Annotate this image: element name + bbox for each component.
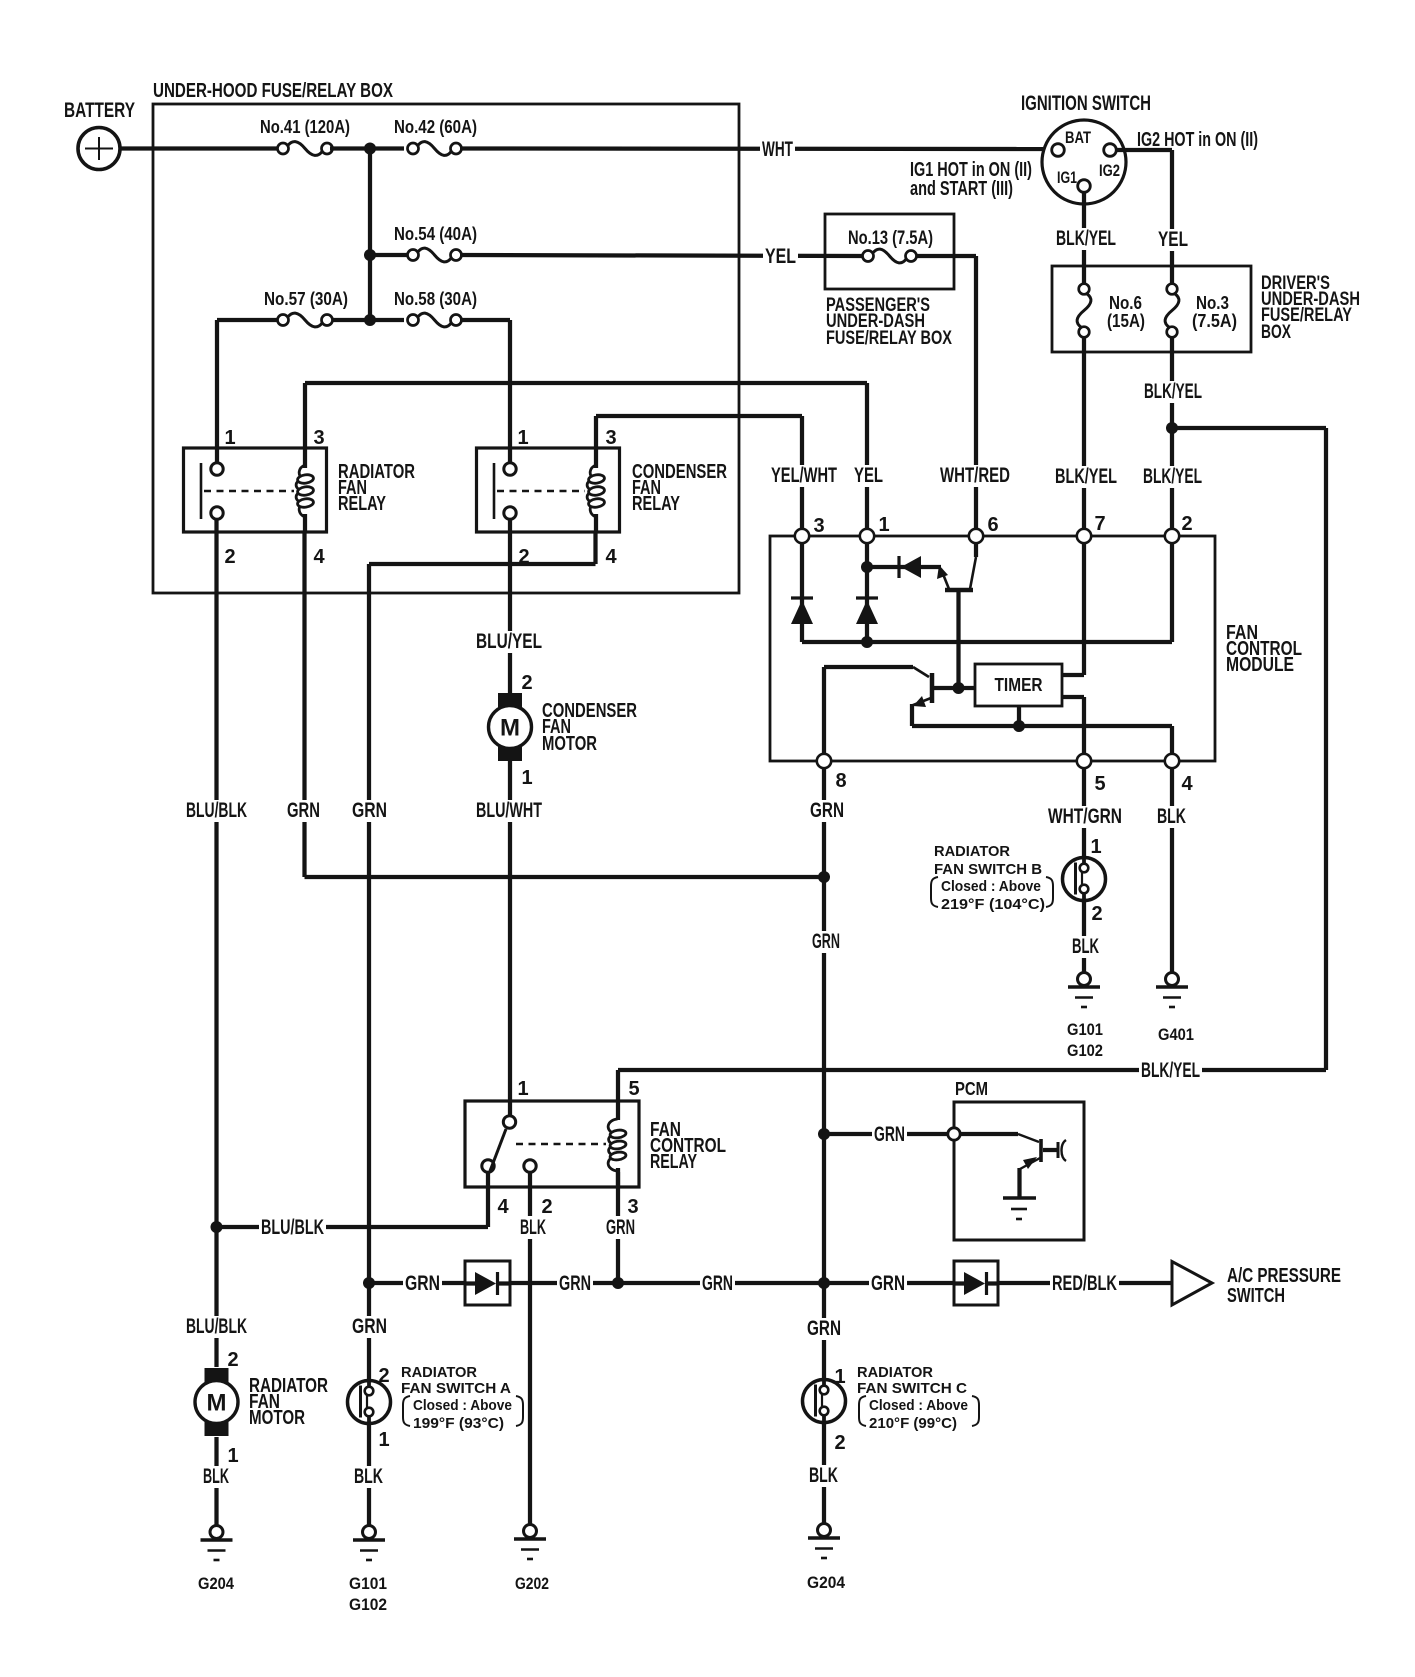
label GRN rail 1: [403, 1273, 442, 1295]
svg-text:G202: G202: [515, 1574, 549, 1593]
wire WHT battery feed to fuse No.41: [120, 146, 277, 150]
wire GRN rail segment 2: [510, 1281, 954, 1285]
svg-text:RELAY: RELAY: [338, 493, 386, 515]
PCM collector connector arc: [1062, 1140, 1067, 1161]
transistor Q1 collector: [974, 543, 978, 557]
fan control module box: [770, 536, 1215, 761]
wire GRN module pin 8 down: [822, 768, 826, 1380]
svg-text:GRN: GRN: [352, 1315, 387, 1338]
svg-text:FUSE/RELAY BOX: FUSE/RELAY BOX: [826, 328, 952, 349]
fuse No.41 (120A): [278, 142, 333, 156]
svg-text:FAN SWITCH A: FAN SWITCH A: [401, 1380, 511, 1397]
label BLK/YEL above pin 7: [1053, 466, 1119, 488]
fan control relay coil: [608, 1119, 626, 1171]
svg-text:No.42 (60A): No.42 (60A): [394, 117, 477, 137]
svg-text:1: 1: [1090, 836, 1101, 858]
diode D1 (pin 3 clamp): [791, 598, 813, 624]
PCM collector connector bar: [1057, 1142, 1060, 1158]
radiator fan relay pin 2 terminal: [211, 507, 223, 519]
svg-text:No.58 (30A): No.58 (30A): [394, 289, 477, 309]
wire Q1 to lower stage: [956, 590, 960, 688]
svg-text:5: 5: [1094, 773, 1105, 795]
svg-text:RADIATOR: RADIATOR: [857, 1364, 933, 1381]
transistor Q2 emitter: [912, 698, 931, 706]
wire BLK/YEL branch to right edge: [1172, 426, 1326, 430]
wire No.57 to junction: [330, 318, 404, 322]
label YEL above module pin 1: [852, 465, 885, 487]
label BLK below switch B: [1070, 936, 1101, 958]
svg-text:3: 3: [627, 1196, 638, 1218]
svg-text:(7.5A): (7.5A): [1192, 311, 1237, 331]
svg-text:GRN: GRN: [559, 1272, 591, 1295]
svg-text:YEL: YEL: [854, 464, 883, 487]
condenser fan relay coil: [587, 465, 605, 517]
svg-text:BLK/YEL: BLK/YEL: [1141, 1059, 1200, 1082]
svg-text:1: 1: [378, 1429, 389, 1451]
svg-text:UNDER-HOOD FUSE/RELAY BOX: UNDER-HOOD FUSE/RELAY BOX: [153, 80, 393, 102]
svg-text:G101: G101: [1067, 1020, 1103, 1039]
label WHT/RED: [938, 465, 1012, 487]
svg-text:4: 4: [497, 1196, 509, 1218]
ground G401: [1156, 973, 1188, 1008]
svg-text:4: 4: [313, 546, 325, 568]
battery positive terminal: [78, 128, 120, 170]
svg-text:PCM: PCM: [955, 1079, 988, 1099]
module terminal 1: [860, 529, 874, 543]
label GRN above switch A: [350, 1316, 389, 1338]
junction D2 bus node: [861, 636, 873, 648]
module terminal 3: [795, 529, 809, 543]
wire BLU/YEL condenser relay pin 2 to motor: [508, 519, 512, 694]
svg-text:1: 1: [517, 427, 528, 449]
svg-text:BOX: BOX: [1261, 322, 1291, 343]
svg-text:BLU/BLK: BLU/BLK: [186, 799, 247, 822]
PCM emitter drop: [1017, 1168, 1021, 1197]
fan control relay pin 2 terminal: [524, 1160, 536, 1172]
radiator fan switch B: [1063, 858, 1106, 901]
wire WHT/GRN module pin 5 to switch B: [1082, 768, 1086, 857]
fuse No.13 (7.5A): [863, 249, 917, 263]
svg-text:BLU/BLK: BLU/BLK: [186, 1315, 247, 1338]
svg-text:No.41 (120A): No.41 (120A): [260, 117, 350, 137]
svg-text:No.57 (30A): No.57 (30A): [264, 289, 348, 309]
ground G202: [514, 1525, 546, 1560]
diode box 2 outline: [954, 1261, 998, 1305]
label BLK/YEL at IG1 drop: [1054, 228, 1118, 250]
svg-text:GRN: GRN: [810, 799, 844, 822]
junction Q2 base node: [953, 682, 965, 694]
svg-text:BLU/BLK: BLU/BLK: [261, 1216, 324, 1239]
PCM transistor collector: [1043, 1148, 1058, 1152]
wire WHT/RED passenger box to module pin 6: [917, 254, 976, 258]
wire BLK switch C to ground: [822, 1422, 826, 1523]
svg-text:BLK: BLK: [809, 1464, 838, 1487]
label YEL at IG2 drop: [1156, 229, 1190, 251]
svg-text:IG1: IG1: [1057, 169, 1077, 187]
svg-text:No.6: No.6: [1109, 293, 1142, 313]
module terminal 2: [1165, 529, 1179, 543]
svg-text:YEL: YEL: [765, 245, 796, 268]
svg-text:BLK/YEL: BLK/YEL: [1144, 380, 1202, 403]
svg-text:4: 4: [605, 546, 617, 568]
svg-text:M: M: [500, 715, 520, 742]
PCM transistor base bar: [1039, 1139, 1043, 1162]
bracket right (switch A): [516, 1396, 523, 1426]
svg-text:GRN: GRN: [812, 930, 840, 953]
svg-text:No.13 (7.5A): No.13 (7.5A): [848, 227, 933, 249]
wire BLK/YEL fuse No.3 to module pin 2: [1170, 338, 1174, 529]
radiator fan relay box: [184, 448, 327, 532]
fuse No.54 (40A): [408, 248, 462, 262]
svg-text:GRN: GRN: [874, 1123, 905, 1146]
radiator fan relay coil top stub: [303, 448, 307, 468]
wire GRN radiator relay pin 4 down: [302, 532, 306, 877]
wire BLU/BLK radiator relay pin 2 down: [214, 519, 218, 1367]
wire Q2 base link: [934, 686, 975, 690]
svg-text:GRN: GRN: [807, 1317, 841, 1340]
radiator fan relay contact blade: [200, 463, 203, 519]
svg-text:Closed : Above: Closed : Above: [413, 1397, 512, 1414]
label GRN above switch C: [805, 1318, 843, 1340]
svg-text:TIMER: TIMER: [995, 675, 1043, 695]
wire fuse No.57 to radiator fan relay pin 1: [217, 318, 277, 322]
wire GRN rail segment 1: [369, 1281, 465, 1285]
condenser fan relay coil top stub: [594, 448, 598, 468]
wire GRN fan control relay pin 3 down: [616, 1172, 620, 1283]
label BLK (switch A): [352, 1466, 385, 1488]
wire BLK/YEL fuse No.6 to module pin 7: [1082, 338, 1086, 530]
fan control relay coil bottom stub: [616, 1168, 620, 1187]
bracket left (switch B): [931, 877, 938, 907]
diode D5 (A/C circuit): [954, 1272, 998, 1295]
label BLU/BLK lower: [184, 1316, 249, 1338]
junction GRN rail relay node: [612, 1277, 624, 1289]
wire module pin 8 internal: [822, 667, 826, 754]
svg-text:Closed : Above: Closed : Above: [941, 878, 1041, 895]
svg-text:1: 1: [224, 427, 235, 449]
wire fuse No.58 to condenser fan relay pin 1: [460, 318, 510, 322]
radiator fan switch A: [348, 1381, 391, 1424]
svg-text:G101: G101: [349, 1574, 387, 1593]
svg-text:3: 3: [813, 515, 824, 537]
ground G101/G102 (switch B): [1068, 973, 1100, 1008]
ignition terminal IG1: [1078, 180, 1091, 193]
transistor Q2 base bar: [930, 673, 935, 703]
ignition terminal IG2: [1104, 144, 1117, 157]
label BLK below pin 4: [1155, 806, 1188, 828]
label WHT/GRN: [1046, 806, 1124, 828]
wire module pin 3 internal: [800, 543, 804, 642]
junction pin 1 internal node: [861, 561, 873, 573]
label BLK/YEL above junction: [1142, 381, 1204, 403]
svg-text:2: 2: [227, 1349, 238, 1371]
wire BLK switch A to ground: [367, 1423, 371, 1525]
svg-text:219°F (104°C): 219°F (104°C): [941, 896, 1045, 913]
wire Q2 emitter bus: [910, 704, 914, 726]
condenser fan motor: [489, 693, 532, 761]
diode D4 (fan circuit): [465, 1272, 510, 1295]
label BLK (rad motor): [201, 1466, 231, 1488]
svg-text:and START (III): and START (III): [910, 178, 1013, 200]
wire radiator relay pin 3 to module pin 1: [303, 383, 307, 448]
svg-text:A/C PRESSURE: A/C PRESSURE: [1227, 1265, 1341, 1287]
svg-text:MODULE: MODULE: [1226, 654, 1294, 676]
label BLK/YEL lower: [1139, 1060, 1202, 1082]
svg-text:IGNITION SWITCH: IGNITION SWITCH: [1021, 92, 1151, 115]
svg-text:GRN: GRN: [352, 799, 387, 822]
ignition switch body: [1042, 120, 1126, 204]
svg-text:SWITCH: SWITCH: [1227, 1285, 1285, 1307]
bracket left (switch A): [403, 1396, 410, 1426]
svg-text:IG2: IG2: [1099, 162, 1120, 180]
svg-text:MOTOR: MOTOR: [542, 733, 597, 755]
label GRN rail 3: [700, 1273, 735, 1295]
svg-text:BLK: BLK: [520, 1216, 546, 1239]
transistor Q1 base bar: [945, 588, 973, 593]
junction GRN rail switch C node: [818, 1277, 830, 1289]
timer right stub to pin 7: [1062, 673, 1084, 677]
svg-text:GRN: GRN: [702, 1272, 733, 1295]
fan control relay coil top stub: [616, 1070, 620, 1120]
wire WHT fuse No.42 to ignition switch BAT: [460, 146, 1051, 151]
fan control relay box: [465, 1101, 639, 1187]
svg-text:7: 7: [1094, 513, 1105, 535]
wire GRN to PCM: [824, 1132, 948, 1136]
svg-text:RED/BLK: RED/BLK: [1052, 1272, 1117, 1295]
junction GRN rail left node: [363, 1277, 375, 1289]
ground G204 (rad motor): [201, 1526, 233, 1561]
fuse No.3 (7.5A): [1165, 284, 1179, 338]
label GRN at PCM: [872, 1124, 907, 1146]
svg-text:1: 1: [521, 767, 532, 789]
fan control relay dashed link: [516, 1143, 606, 1145]
svg-text:G102: G102: [1067, 1041, 1103, 1060]
junction battery feed node: [364, 143, 376, 155]
condenser fan relay actuation dashed link: [497, 490, 585, 492]
svg-text:YEL/WHT: YEL/WHT: [771, 464, 837, 487]
svg-text:FAN SWITCH C: FAN SWITCH C: [857, 1380, 967, 1397]
PCM internal ground: [1003, 1198, 1036, 1219]
svg-text:GRN: GRN: [871, 1272, 905, 1295]
label GRN rail 2: [557, 1273, 593, 1295]
label GRN below pin 3: [604, 1216, 637, 1239]
wire BLK radiator motor to ground: [214, 1437, 218, 1525]
svg-text:BLK: BLK: [203, 1465, 229, 1488]
wire YEL fuse No.54 to passenger box: [460, 255, 862, 256]
fan control relay pin 4 terminal: [482, 1160, 494, 1172]
svg-text:8: 8: [835, 770, 846, 792]
bracket right (switch C): [972, 1396, 979, 1426]
radiator fan relay coil bottom stub: [303, 514, 307, 532]
wire IG1 to BLK/YEL drop: [1082, 193, 1086, 284]
wire RED/BLK to A/C pressure switch: [998, 1281, 1172, 1285]
condenser fan relay contact blade: [493, 463, 496, 519]
module terminal 8: [817, 754, 831, 768]
label YEL: [763, 246, 798, 268]
bracket right (switch B): [1046, 877, 1053, 907]
svg-text:3: 3: [605, 427, 616, 449]
wire GRN condenser relay pin 4 down: [367, 564, 371, 1380]
label BLK (switch C): [807, 1465, 840, 1487]
svg-text:WHT: WHT: [762, 138, 793, 161]
wire module pin 5 internal: [1082, 697, 1086, 754]
condenser fan relay box: [477, 448, 620, 532]
label BLU/YEL: [474, 631, 544, 653]
wire fuse No.41 to No.42: [330, 146, 404, 150]
diode D3 (series): [899, 556, 921, 578]
label GRN radiator relay pin 4: [285, 800, 322, 822]
PCM internal wire: [960, 1132, 1018, 1136]
ground G204 (switch C): [808, 1524, 840, 1559]
timer bottom stub: [1017, 706, 1021, 726]
wire IG2 to YEL drop: [1117, 148, 1173, 152]
radiator fan switch C: [803, 1380, 846, 1423]
svg-text:BATTERY: BATTERY: [64, 99, 135, 122]
label GRN below junction: [810, 931, 842, 953]
svg-text:Closed : Above: Closed : Above: [869, 1397, 968, 1414]
svg-text:FAN SWITCH B: FAN SWITCH B: [934, 861, 1042, 878]
timer right stub to pin 5: [1062, 695, 1084, 699]
module terminal 4: [1165, 754, 1179, 768]
diode D2 (pin 1 clamp): [856, 598, 878, 624]
svg-text:4: 4: [1181, 773, 1193, 795]
svg-text:2: 2: [1181, 513, 1192, 535]
junction timer bottom node: [1013, 720, 1025, 732]
svg-text:RADIATOR: RADIATOR: [401, 1364, 477, 1381]
fuse No.6 (15A): [1077, 284, 1091, 338]
fuse No.57 (30A): [278, 313, 333, 327]
wire feeder junction to No.54 row: [368, 149, 372, 256]
label BLU/BLK upper: [184, 800, 249, 822]
radiator fan relay coil: [296, 465, 314, 517]
svg-text:GRN: GRN: [606, 1216, 635, 1239]
svg-text:2: 2: [521, 672, 532, 694]
svg-text:RELAY: RELAY: [632, 493, 680, 515]
wire BLK/YEL right branch to fan control relay pin 5: [618, 1068, 1326, 1072]
svg-text:G401: G401: [1158, 1025, 1194, 1044]
wire BLK module pin 4 to ground: [1170, 768, 1174, 972]
junction BLK/YEL branch node: [1166, 422, 1178, 434]
fan control relay switch arm: [490, 1129, 506, 1171]
module internal bus: [802, 640, 1172, 644]
svg-text:No.54 (40A): No.54 (40A): [394, 224, 477, 244]
svg-text:GRN: GRN: [287, 799, 320, 822]
ignition terminal BAT: [1052, 144, 1065, 157]
svg-text:BLK/YEL: BLK/YEL: [1055, 465, 1117, 488]
label GRN below pin 8: [808, 800, 846, 822]
passenger's under-dash fuse/relay box outline: [825, 214, 954, 289]
condenser fan relay pin 1 terminal: [504, 463, 516, 475]
fuse No.42 (60A): [408, 142, 462, 156]
condenser fan relay coil bottom stub: [594, 514, 598, 532]
label BLK below pin 2: [518, 1216, 548, 1239]
wire module pin 2 internal: [1170, 543, 1174, 642]
condenser fan relay pin 2 terminal: [504, 507, 516, 519]
module terminal 6: [969, 529, 983, 543]
svg-text:WHT/GRN: WHT/GRN: [1048, 805, 1122, 828]
svg-text:YEL: YEL: [1158, 228, 1188, 251]
svg-text:MOTOR: MOTOR: [249, 1407, 305, 1429]
wire node to diode D3: [867, 565, 941, 569]
svg-text:BLK: BLK: [1157, 805, 1186, 828]
A/C pressure switch connector: [1172, 1262, 1212, 1306]
svg-text:M: M: [207, 1390, 227, 1417]
diode box 1 outline: [465, 1261, 510, 1305]
svg-text:1: 1: [517, 1078, 528, 1100]
junction No.54 tap: [364, 249, 376, 261]
label BLK/YEL above pin 2: [1141, 466, 1204, 488]
svg-text:2: 2: [1091, 903, 1102, 925]
wire feeder to No.57/58 row: [368, 255, 372, 320]
bracket left (switch C): [859, 1396, 866, 1426]
svg-text:BLK: BLK: [354, 1465, 383, 1488]
svg-text:No.3: No.3: [1196, 293, 1229, 313]
radiator fan relay pin 1 terminal: [211, 463, 223, 475]
svg-text:5: 5: [628, 1078, 639, 1100]
wire BLU/WHT motor to fan control relay pin 1: [508, 760, 512, 1116]
fuse No.58 (30A): [408, 313, 462, 327]
module terminal 5: [1077, 754, 1091, 768]
label BLU/WHT: [474, 800, 544, 822]
svg-text:3: 3: [313, 427, 324, 449]
svg-text:RADIATOR: RADIATOR: [934, 843, 1010, 860]
svg-text:WHT/RED: WHT/RED: [940, 464, 1010, 487]
svg-text:2: 2: [834, 1432, 845, 1454]
label BLU/BLK middle: [259, 1217, 326, 1239]
svg-text:BLK/YEL: BLK/YEL: [1056, 227, 1116, 250]
junction No.57/58 tap: [364, 314, 376, 326]
svg-text:G204: G204: [198, 1574, 234, 1593]
svg-text:210°F (99°C): 210°F (99°C): [869, 1415, 957, 1432]
under-hood fuse/relay box outline: [153, 104, 739, 593]
wire module pin 7 internal: [1082, 543, 1086, 675]
fan control relay pin 1 terminal: [503, 1116, 515, 1128]
module terminal 7: [1077, 529, 1091, 543]
radiator fan motor: [195, 1368, 238, 1436]
svg-text:1: 1: [227, 1445, 238, 1467]
label YEL/WHT above module pin 3: [769, 465, 839, 487]
svg-text:199°F (93°C): 199°F (93°C): [413, 1415, 504, 1432]
wire condenser relay pin 4 jog: [593, 532, 597, 564]
label RED/BLK: [1050, 1273, 1119, 1295]
svg-text:6: 6: [987, 514, 998, 536]
label GRN condenser relay pin 4: [350, 800, 389, 822]
PCM box: [954, 1102, 1084, 1240]
svg-text:G102: G102: [349, 1595, 387, 1614]
wire GRN link relay pin4 row: [305, 875, 825, 879]
svg-text:(15A): (15A): [1107, 311, 1145, 331]
transistor Q1 emitter: [941, 569, 949, 589]
wire fan control relay pin 4 BLU/BLK jog: [486, 1172, 490, 1227]
wire BLK fan control relay pin 2 to ground: [528, 1172, 532, 1524]
junction GRN PCM tap: [818, 1128, 830, 1140]
PCM input terminal: [948, 1128, 960, 1140]
svg-text:1: 1: [878, 514, 889, 536]
label WHT: [760, 139, 795, 161]
svg-text:BLK: BLK: [1072, 935, 1099, 958]
svg-text:2: 2: [541, 1196, 552, 1218]
svg-text:G204: G204: [807, 1573, 845, 1592]
PCM transistor emitter: [1020, 1158, 1040, 1169]
timer box: [975, 664, 1062, 706]
junction BLU/BLK node: [211, 1221, 223, 1233]
svg-text:BLK/YEL: BLK/YEL: [1143, 465, 1202, 488]
label GRN rail 4: [869, 1273, 907, 1295]
svg-text:BAT: BAT: [1065, 129, 1091, 147]
driver's under-dash fuse/relay box outline: [1052, 266, 1251, 352]
radiator fan relay actuation dashed link: [204, 490, 294, 492]
svg-text:2: 2: [224, 546, 235, 568]
